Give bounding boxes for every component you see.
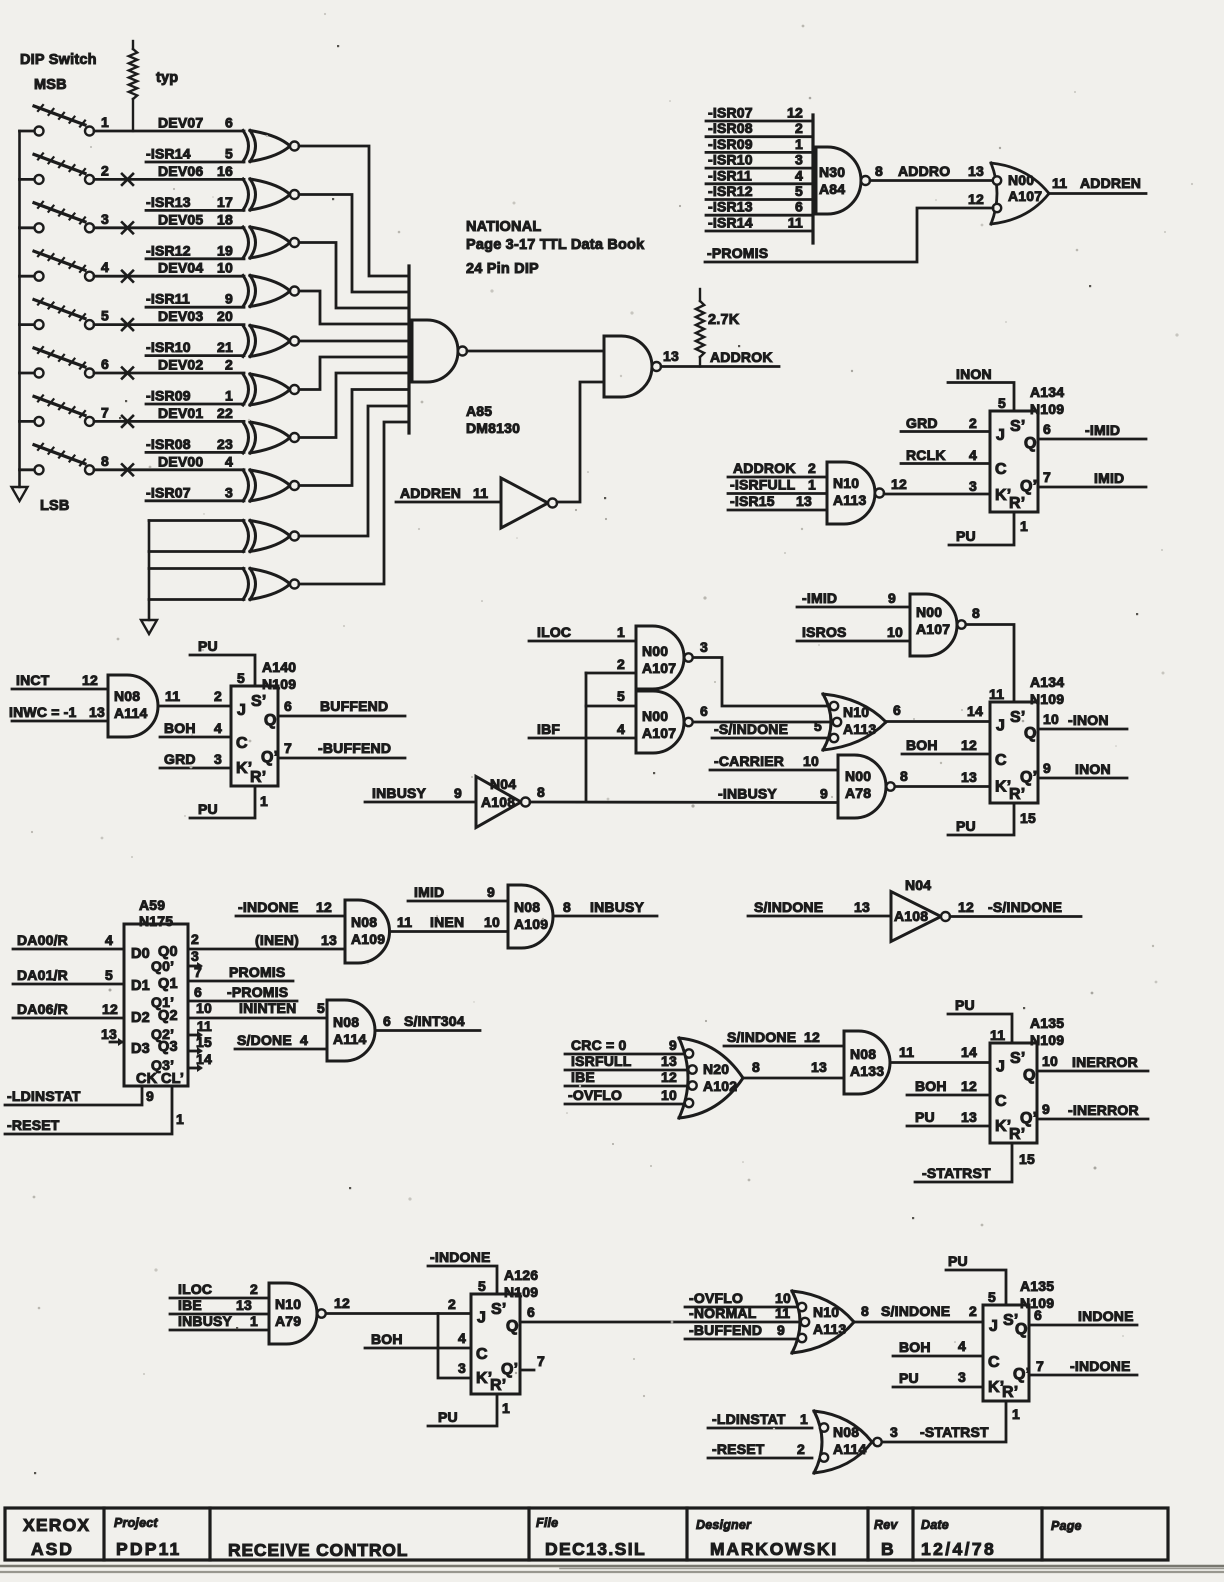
svg-text:GRD: GRD — [164, 751, 196, 767]
svg-text:-ISR15: -ISR15 — [730, 493, 775, 509]
svg-text:4: 4 — [795, 167, 803, 183]
wire -ISR09 (pin 1) to N30 A84 — [706, 136, 813, 153]
wire -INDONE to A109 pin 12 — [236, 899, 345, 916]
svg-text:13: 13 — [663, 348, 679, 364]
svg-text:9: 9 — [487, 884, 495, 900]
svg-text:12: 12 — [958, 899, 974, 915]
svg-text:Q: Q — [1023, 1067, 1036, 1084]
wire A78 output 8 to A134 pin 13 K — [895, 768, 990, 787]
flip-flop A134 N109 (IMID) — [990, 384, 1064, 512]
svg-text:DEV04: DEV04 — [158, 260, 203, 276]
svg-text:4: 4 — [214, 720, 222, 736]
inverter N04 A108 (INBUSY) — [365, 776, 530, 828]
svg-text:N08: N08 — [833, 1424, 859, 1440]
svg-text:INWC = -1: INWC = -1 — [9, 704, 77, 720]
wire Q2 pin 10 ININTEN to A114 pin 5 — [188, 1000, 327, 1018]
svg-text:2: 2 — [448, 1296, 456, 1312]
svg-text:IBE: IBE — [571, 1069, 595, 1085]
svg-text:BOH: BOH — [906, 737, 938, 753]
NAND gate N00 A107 (IBF) — [636, 691, 693, 753]
svg-text:-PROMIS: -PROMIS — [227, 984, 288, 1000]
wire A133 output 11 to A135 pin 14 J — [890, 1044, 990, 1063]
NOR gate N08 A114 (bottom -STATRST) — [814, 1411, 882, 1473]
svg-text:5: 5 — [795, 183, 803, 199]
svg-text:4: 4 — [225, 453, 233, 469]
svg-text:13: 13 — [796, 493, 812, 509]
wire -LDINSTAT to A59 pin 9 CK — [5, 1086, 154, 1105]
wire BOH to A140 pin 4 C — [160, 720, 231, 737]
svg-text:8: 8 — [563, 899, 571, 915]
svg-text:DA06/R: DA06/R — [17, 1001, 68, 1017]
svg-text:9: 9 — [669, 1037, 677, 1053]
svg-text:C: C — [236, 735, 248, 752]
svg-text:8: 8 — [537, 784, 545, 800]
wire G8 output to A85 input — [299, 390, 409, 486]
svg-text:B: B — [881, 1539, 894, 1559]
svg-text:-ISR12: -ISR12 — [708, 183, 753, 199]
wire grounded input to gate — [149, 550, 244, 553]
svg-text:12: 12 — [804, 1029, 820, 1045]
svg-text:-INDONE: -INDONE — [238, 899, 299, 915]
svg-text:INEN: INEN — [430, 914, 464, 930]
svg-text:ILOC: ILOC — [537, 624, 571, 640]
svg-text:7: 7 — [101, 404, 109, 420]
svg-text:9: 9 — [1043, 760, 1051, 776]
wire -STATRST output 3 to A135 pin 1 — [882, 1401, 1020, 1442]
svg-text:ISRFULL: ISRFULL — [571, 1053, 632, 1069]
svg-text:8: 8 — [752, 1059, 760, 1075]
svg-text:DM8130: DM8130 — [466, 420, 520, 436]
DIP switch S7 — [20, 395, 134, 427]
svg-text:4: 4 — [958, 1338, 966, 1354]
svg-text:Q2: Q2 — [158, 1008, 178, 1024]
svg-text:5: 5 — [317, 1000, 325, 1016]
wire ADDROK output 13 — [661, 348, 779, 367]
wire A107 output 8 to A134 pin 11 — [966, 605, 1014, 702]
svg-text:ADDREN: ADDREN — [400, 485, 461, 501]
svg-text:5: 5 — [225, 146, 233, 162]
svg-text:RECEIVE CONTROL: RECEIVE CONTROL — [228, 1540, 408, 1560]
DIP switch S3 — [20, 202, 134, 234]
svg-text:2: 2 — [969, 415, 977, 431]
wire -ISR08 (pin 2) to N30 A84 — [706, 120, 813, 137]
wire GRD to A134 pin 2 J — [901, 415, 990, 432]
svg-text:PDP11: PDP11 — [116, 1539, 181, 1559]
wire -ISR13 (pin 6) to N30 A84 — [706, 199, 813, 216]
AND gate N08 A109 (IMID INEN) — [508, 885, 553, 948]
wire IBE to A102 pin 12 — [565, 1069, 688, 1086]
svg-text:File: File — [536, 1516, 558, 1530]
svg-text:1: 1 — [795, 136, 803, 152]
svg-text:CRC = 0: CRC = 0 — [571, 1037, 626, 1053]
wire -CARRIER to A78 pin 10 — [710, 753, 838, 770]
wire ISRFULL to A102 pin 13 — [565, 1053, 688, 1070]
svg-text:Q’: Q’ — [501, 1361, 518, 1378]
pull-up resistor typ — [129, 41, 179, 131]
svg-text:5: 5 — [998, 395, 1006, 411]
stub Q3 pin 14 — [188, 1051, 212, 1072]
svg-text:-ISR08: -ISR08 — [708, 120, 753, 136]
svg-text:6: 6 — [795, 199, 803, 215]
svg-text:N10: N10 — [275, 1296, 301, 1312]
svg-text:-BUFFEND: -BUFFEND — [318, 740, 391, 756]
svg-text:-INBUSY: -INBUSY — [718, 786, 777, 802]
wire Q1 pin 6 -PROMIS — [188, 984, 297, 1001]
wire DEV06 (pin 16) switch to gate G2 — [94, 163, 244, 180]
svg-text:MARKOWSKI: MARKOWSKI — [710, 1539, 838, 1559]
svg-text:-IMID: -IMID — [802, 590, 837, 606]
svg-text:1: 1 — [101, 114, 109, 130]
wire -OVFLO to A113 pin 10 — [685, 1290, 796, 1307]
wire PU to A135 pin 11 — [948, 997, 1012, 1043]
svg-text:-ISR09: -ISR09 — [708, 136, 753, 152]
wire PU to A140 pin 1 — [190, 786, 268, 818]
wire ILOC to A79 pin 2 — [170, 1281, 269, 1298]
svg-text:S/INT304: S/INT304 — [404, 1013, 465, 1029]
svg-text:-CARRIER: -CARRIER — [714, 753, 784, 769]
svg-text:13: 13 — [321, 932, 337, 948]
svg-text:A126: A126 — [504, 1267, 538, 1283]
svg-text:9: 9 — [777, 1322, 785, 1338]
wire grounded input to gate — [149, 598, 244, 601]
NOR gate N00 A107 (ADDREN) — [991, 163, 1049, 224]
inverter A85 section ADDREN input 11 — [396, 478, 557, 528]
svg-text:-ISR14: -ISR14 — [708, 215, 753, 231]
svg-text:A59: A59 — [139, 897, 165, 913]
wire ISROS to A107 pin 10 — [797, 624, 910, 641]
wire -ISR12 (pin 5) to N30 A84 — [706, 183, 813, 200]
wire DEV04 (pin 10) switch to gate G4 — [94, 260, 244, 277]
svg-text:C: C — [476, 1346, 488, 1363]
svg-text:S’: S’ — [1010, 1050, 1026, 1067]
svg-text:-S/INDONE: -S/INDONE — [988, 899, 1062, 915]
svg-text:J: J — [996, 718, 1005, 735]
label -NORMAL pin 11 — [689, 1305, 790, 1321]
title block RECEIVE CONTROL — [228, 1540, 408, 1560]
XNOR gate G6 — [243, 374, 299, 405]
title block Date 12/4/78 — [921, 1518, 996, 1559]
svg-text:-NORMAL: -NORMAL — [689, 1305, 757, 1321]
svg-text:PU: PU — [955, 997, 975, 1013]
svg-text:INON: INON — [1075, 761, 1111, 777]
title block Page — [1051, 1519, 1082, 1533]
wire grounded input to gate — [149, 567, 244, 570]
svg-text:7: 7 — [1036, 1358, 1044, 1374]
svg-text:-INDONE: -INDONE — [1070, 1358, 1131, 1374]
svg-text:-OVFLO: -OVFLO — [568, 1087, 622, 1103]
svg-text:-INON: -INON — [1068, 712, 1109, 728]
wire G7 output to A85 input — [299, 373, 409, 438]
svg-text:typ: typ — [156, 70, 178, 86]
svg-text:PU: PU — [956, 818, 976, 834]
svg-text:A79: A79 — [275, 1313, 301, 1329]
svg-text:INBUSY: INBUSY — [372, 785, 427, 801]
svg-text:14: 14 — [961, 1044, 977, 1060]
wire -LDINSTAT to A114 pin 1 — [708, 1411, 812, 1428]
svg-text:PU: PU — [438, 1409, 458, 1425]
wire DEV05 (pin 18) switch to gate G3 — [94, 211, 244, 228]
svg-text:13: 13 — [811, 1059, 827, 1075]
svg-text:A84: A84 — [819, 181, 845, 197]
svg-text:LSB: LSB — [40, 498, 70, 514]
wire -IMID to A107 pin 9 — [797, 590, 910, 607]
svg-text:20: 20 — [217, 308, 233, 324]
svg-text:-ISR11: -ISR11 — [708, 167, 752, 183]
svg-text:N109: N109 — [1030, 1032, 1064, 1048]
svg-text:11: 11 — [397, 914, 412, 930]
svg-text:N08: N08 — [114, 688, 140, 704]
svg-text:INDONE: INDONE — [1078, 1308, 1134, 1324]
svg-text:-ISR13: -ISR13 — [708, 199, 753, 215]
svg-text:ISROS: ISROS — [802, 624, 847, 640]
svg-text:A114: A114 — [333, 1031, 367, 1047]
svg-text:21: 21 — [217, 339, 233, 355]
svg-text:S’: S’ — [251, 693, 267, 710]
svg-text:A140: A140 — [262, 659, 296, 675]
inverter N04 A108 (S/INDONE) — [748, 877, 1081, 942]
svg-text:6: 6 — [194, 984, 202, 1000]
svg-text:-ISRFULL: -ISRFULL — [730, 477, 796, 493]
wire PU to A135 pin 13 K — [907, 1109, 990, 1126]
svg-text:12: 12 — [891, 476, 907, 492]
svg-text:A107: A107 — [642, 660, 676, 676]
svg-text:A135: A135 — [1030, 1015, 1064, 1031]
svg-text:17: 17 — [217, 194, 233, 210]
svg-text:10: 10 — [1043, 711, 1059, 727]
svg-text:ADDREN: ADDREN — [1080, 175, 1141, 191]
svg-text:Rev: Rev — [874, 1518, 898, 1532]
svg-text:INCT: INCT — [16, 672, 50, 688]
note NATIONAL data book — [466, 219, 645, 277]
wire A113 output 8 S/INDONE to A135 pin 2 J — [854, 1303, 983, 1322]
svg-text:6: 6 — [101, 356, 109, 372]
svg-text:DEV07: DEV07 — [158, 115, 203, 131]
svg-text:13: 13 — [661, 1053, 677, 1069]
svg-text:9: 9 — [454, 785, 462, 801]
svg-text:-ISR10: -ISR10 — [708, 152, 753, 168]
wire G2 output to A85 input — [299, 195, 409, 293]
wire BOH to A135 pin 4 C — [893, 1338, 983, 1356]
svg-text:DIP Switch: DIP Switch — [20, 52, 97, 68]
svg-text:4: 4 — [300, 1032, 308, 1048]
svg-text:3: 3 — [795, 152, 803, 168]
svg-text:12: 12 — [661, 1069, 677, 1085]
svg-text:5: 5 — [988, 1289, 996, 1305]
wire grounded input to gate — [149, 519, 244, 522]
svg-text:NATIONAL: NATIONAL — [466, 219, 541, 235]
wire -ISRFULL to A113 pin 1 — [728, 477, 827, 494]
svg-text:13: 13 — [236, 1297, 252, 1313]
svg-text:4: 4 — [101, 259, 109, 275]
svg-text:Page: Page — [1051, 1519, 1082, 1533]
svg-text:D1: D1 — [131, 978, 150, 994]
svg-text:R’: R’ — [1002, 1384, 1018, 1401]
svg-text:-RESET: -RESET — [712, 1441, 765, 1457]
svg-text:1: 1 — [260, 793, 268, 809]
wire PU to A135 pin 3 K — [893, 1369, 983, 1387]
svg-text:S’: S’ — [1010, 709, 1026, 726]
XNOR gate G1 — [243, 131, 299, 162]
svg-text:11: 11 — [473, 485, 488, 501]
svg-text:-IMID: -IMID — [1085, 422, 1120, 438]
NOR gate N10 A113 (bottom) — [792, 1291, 854, 1353]
svg-text:DEV03: DEV03 — [158, 308, 203, 324]
wire DA01/R to A59 pin 5 D1 — [13, 967, 124, 984]
svg-text:6: 6 — [225, 115, 233, 131]
svg-text:11: 11 — [788, 215, 803, 231]
AND gate N08 A114 (INCT) — [108, 675, 158, 737]
wire -ISR15 to A113 pin 13 — [728, 493, 827, 510]
svg-text:N00: N00 — [642, 643, 668, 659]
wire -INERROR output 9 — [1037, 1101, 1148, 1119]
wire -OVFLO to A102 pin 10 — [565, 1087, 685, 1104]
svg-text:ADDROK: ADDROK — [710, 349, 773, 365]
svg-text:N10: N10 — [833, 475, 859, 491]
wire A102 output 8 to A133 pin 13 — [743, 1059, 844, 1078]
svg-text:13: 13 — [961, 769, 977, 785]
svg-text:BOH: BOH — [371, 1331, 403, 1347]
DIP switch title text — [20, 52, 97, 93]
svg-text:10: 10 — [1042, 1053, 1058, 1069]
wire INON to A134 pin 5 — [948, 366, 1014, 411]
svg-text:6: 6 — [893, 702, 901, 718]
svg-text:S/INDONE: S/INDONE — [727, 1029, 796, 1045]
AND gate A85 DM8130 8-input — [412, 320, 520, 436]
svg-text:Project: Project — [114, 1516, 158, 1530]
svg-text:4: 4 — [458, 1330, 466, 1346]
svg-text:19: 19 — [217, 242, 233, 258]
wire A109 output 11 INEN to A109 pin 10 — [390, 914, 508, 932]
svg-text:INBUSY: INBUSY — [178, 1313, 233, 1329]
svg-text:Q0’: Q0’ — [151, 958, 174, 974]
svg-text:J: J — [996, 427, 1005, 444]
wire A113 output 6 to A134 pin 14 J — [886, 702, 990, 722]
svg-text:D0: D0 — [131, 946, 150, 962]
svg-text:8: 8 — [101, 453, 109, 469]
svg-text:10: 10 — [661, 1087, 677, 1103]
svg-text:N10: N10 — [813, 1304, 839, 1320]
svg-text:2: 2 — [969, 1303, 977, 1319]
svg-text:3: 3 — [958, 1369, 966, 1385]
svg-text:Q: Q — [506, 1318, 519, 1335]
svg-text:-LDINSTAT: -LDINSTAT — [712, 1411, 786, 1427]
svg-text:2: 2 — [797, 1441, 805, 1457]
stub Q0 pin 3 — [188, 948, 203, 970]
svg-text:-S/INDONE: -S/INDONE — [714, 721, 788, 737]
svg-text:Q1: Q1 — [158, 976, 178, 992]
svg-text:J: J — [996, 1059, 1005, 1076]
wire -BUFFEND output 7 — [278, 740, 405, 758]
svg-text:7: 7 — [537, 1353, 545, 1369]
NAND gate N00 A107 (-IMID ISROS) — [910, 594, 966, 656]
wire -ISR07 (pin 12) to N30 A84 — [706, 105, 813, 122]
wire -INBUSY inverter output to A78 pin 9 — [530, 784, 838, 803]
svg-text:BOH: BOH — [899, 1339, 931, 1355]
svg-text:PU: PU — [915, 1109, 935, 1125]
NAND gate N00 A107 (ILOC) — [636, 626, 693, 689]
wire -ISR11 (pin 4) to N30 A84 — [706, 167, 813, 184]
grounded input bus for G9 G10 — [148, 521, 151, 621]
svg-text:(INEN): (INEN) — [255, 932, 299, 948]
wire INWC=-1 to A114 pin 13 — [9, 704, 108, 721]
junction wire for pins 2 and 5 — [585, 673, 588, 802]
svg-text:IBF: IBF — [537, 721, 560, 737]
svg-text:ILOC: ILOC — [178, 1281, 212, 1297]
resistor 2.7K pull-up — [696, 289, 740, 367]
svg-text:12: 12 — [316, 899, 332, 915]
svg-text:11: 11 — [1052, 175, 1067, 191]
svg-text:J: J — [237, 702, 246, 719]
wire PU to A134 pin 15 — [948, 803, 1036, 835]
wire -INON output 10 — [1038, 711, 1127, 729]
wire PU to A134 pin 1 — [949, 512, 1028, 545]
svg-text:1: 1 — [1012, 1406, 1020, 1422]
svg-text:DEV06: DEV06 — [158, 163, 203, 179]
wire IBF to A107 pin 4 — [529, 721, 636, 738]
wire PU to A135 pin 5 — [946, 1253, 1006, 1305]
wire IMID output 7 — [1038, 469, 1146, 487]
svg-text:N109: N109 — [1030, 691, 1064, 707]
wire -S/INDONE to A113 pin 5 — [712, 718, 829, 738]
wire -ISR08 (pin 23) to gate G7 — [146, 436, 244, 453]
svg-text:XEROX: XEROX — [23, 1515, 90, 1535]
svg-text:3: 3 — [890, 1424, 898, 1440]
svg-text:-ISR07: -ISR07 — [146, 484, 191, 500]
wire INBUSY output 8 — [553, 899, 657, 916]
svg-text:C: C — [988, 1354, 1000, 1371]
svg-text:Q: Q — [1015, 1321, 1028, 1338]
svg-text:9: 9 — [1042, 1101, 1050, 1117]
svg-text:DEV00: DEV00 — [158, 453, 203, 469]
DIP switch S8 — [20, 444, 134, 476]
svg-text:12: 12 — [102, 1001, 118, 1017]
svg-text:A134: A134 — [1030, 674, 1064, 690]
XNOR gate G8 — [243, 470, 299, 501]
XNOR gate G2 — [243, 179, 299, 210]
svg-text:DEC13.SIL: DEC13.SIL — [545, 1539, 646, 1559]
wire -ISR14 (pin 11) to N30 A84 — [706, 215, 813, 232]
wire BOH to A135 pin 12 C — [907, 1078, 990, 1095]
svg-text:PU: PU — [198, 638, 218, 654]
svg-text:3: 3 — [191, 948, 199, 964]
svg-text:12: 12 — [787, 105, 803, 121]
svg-text:5: 5 — [617, 688, 625, 704]
svg-text:A102: A102 — [703, 1078, 737, 1094]
wire -ISR14 (pin 5) to gate G1 — [146, 146, 244, 163]
wire A126 Q 6 to A113 pin 11 -NORMAL — [520, 1304, 799, 1322]
svg-text:DEV02: DEV02 — [158, 357, 203, 373]
svg-text:12: 12 — [334, 1295, 350, 1311]
svg-text:S/DONE: S/DONE — [237, 1032, 292, 1048]
svg-text:DEV01: DEV01 — [158, 405, 203, 421]
svg-text:N00: N00 — [916, 604, 942, 620]
wire BUFFEND output 6 — [278, 698, 405, 716]
svg-text:6: 6 — [383, 1013, 391, 1029]
svg-text:1: 1 — [502, 1400, 510, 1416]
svg-text:13: 13 — [961, 1109, 977, 1125]
title block Rev B — [874, 1518, 898, 1559]
title block frame — [5, 1508, 1168, 1560]
svg-text:RCLK: RCLK — [906, 447, 946, 463]
ground for G9 G10 inputs — [141, 620, 157, 634]
wire RCLK to A134 pin 4 C — [901, 447, 990, 464]
wire inverter output to NAND input — [557, 382, 604, 502]
svg-text:INON: INON — [956, 366, 992, 382]
svg-text:14: 14 — [967, 703, 983, 719]
svg-text:A135: A135 — [1020, 1278, 1054, 1294]
svg-text:-ISR08: -ISR08 — [146, 436, 191, 452]
svg-text:N20: N20 — [703, 1061, 729, 1077]
